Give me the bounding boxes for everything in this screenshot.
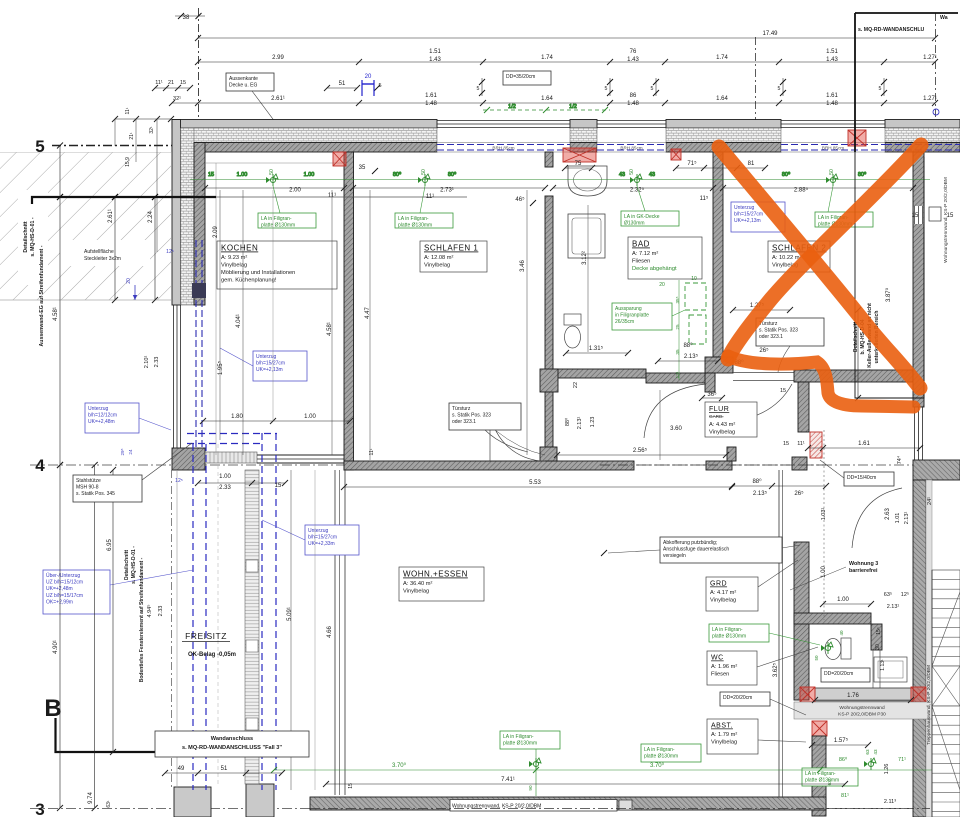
svg-text:2.63: 2.63 <box>885 508 891 520</box>
svg-text:b/h=12/12cm: b/h=12/12cm <box>88 413 117 419</box>
room label FLUR <box>705 402 757 437</box>
svg-text:43: 43 <box>619 172 625 178</box>
svg-text:Anschlussfuge dauerelastisch: Anschlussfuge dauerelastisch <box>663 547 729 553</box>
svg-text:BAD: BAD <box>632 240 650 249</box>
svg-text:63¹: 63¹ <box>106 800 112 808</box>
orange marker X stroke A <box>719 145 921 407</box>
svg-text:86⁰: 86⁰ <box>839 756 848 763</box>
svg-text:2.00: 2.00 <box>289 188 301 194</box>
grid line 4 <box>30 456 958 475</box>
svg-text:A: 12.08 m²: A: 12.08 m² <box>424 255 454 261</box>
svg-text:32¹: 32¹ <box>149 126 155 134</box>
interior vertical dim lines <box>220 190 660 790</box>
svg-text:5: 5 <box>651 86 654 92</box>
svg-text:platte Ø130mm: platte Ø130mm <box>805 778 839 784</box>
svg-text:2.73¹: 2.73¹ <box>440 188 454 194</box>
svg-text:17.49: 17.49 <box>762 31 778 37</box>
svg-text:1.74: 1.74 <box>541 55 553 61</box>
svg-text:3: 3 <box>35 800 44 817</box>
svg-text:1.00: 1.00 <box>837 597 849 603</box>
svg-text:Türsturz: Türsturz <box>452 406 471 412</box>
svg-text:Vinylbelag: Vinylbelag <box>403 589 429 595</box>
room label WC <box>707 647 818 685</box>
dim KOCHEN window <box>200 414 353 424</box>
SCHLAFEN2 left wall <box>705 152 733 392</box>
svg-text:1.00: 1.00 <box>237 172 248 178</box>
svg-text:2.88⁵: 2.88⁵ <box>794 187 809 194</box>
room label SCHLAFEN 1 <box>420 241 487 272</box>
svg-text:2.09: 2.09 <box>213 226 219 238</box>
room label SCHLAFEN 2 <box>768 241 830 272</box>
window reveal 5 dims <box>477 78 887 96</box>
svg-text:LA in Filigran-: LA in Filigran- <box>644 747 675 753</box>
svg-text:2.13¹: 2.13¹ <box>887 604 900 610</box>
svg-text:Wohnung 3: Wohnung 3 <box>849 561 878 567</box>
svg-text:UZ b/h=15/12cm: UZ b/h=15/12cm <box>46 580 83 586</box>
black room dim lines <box>202 185 916 194</box>
wall WC right <box>871 624 882 688</box>
svg-text:Vinylbelag: Vinylbelag <box>711 740 737 746</box>
red DD box 15/40 <box>810 432 822 458</box>
rotated gray wall texts right <box>926 177 949 745</box>
svg-text:1/2: 1/2 <box>508 104 516 110</box>
green box LA KOCHEN <box>258 186 316 229</box>
rotated bold text detail right <box>853 303 880 371</box>
stair side wall lines <box>931 570 933 817</box>
svg-text:LA in Filigran-: LA in Filigran- <box>398 216 429 222</box>
WOHN right edge double line <box>779 470 783 797</box>
svg-text:2.13¹: 2.13¹ <box>577 417 583 430</box>
WC fixtures <box>825 638 907 682</box>
green box LA SCHLAFEN1 <box>395 186 453 229</box>
svg-text:Steckleiter 3x2m: Steckleiter 3x2m <box>84 256 121 262</box>
dim 5.53 <box>341 480 735 490</box>
svg-text:20: 20 <box>365 74 372 80</box>
svg-text:1.64: 1.64 <box>716 96 728 102</box>
svg-text:20: 20 <box>126 278 132 284</box>
dims right FLUR top <box>783 441 923 451</box>
green ceiling line KOCHEN <box>190 171 930 186</box>
staircase lower flight <box>932 706 960 817</box>
svg-text:Fliesen: Fliesen <box>632 259 650 265</box>
wall right of FLUR <box>792 382 809 470</box>
svg-text:Decke u. EG: Decke u. EG <box>229 83 257 89</box>
dimension chain row 2 <box>195 49 938 65</box>
svg-text:A: 1.79 m²: A: 1.79 m² <box>711 732 737 738</box>
dims SCHLAFEN2 <box>699 302 793 401</box>
svg-text:2.33: 2.33 <box>158 606 164 617</box>
label Wohnung 3 barrierefrei <box>790 561 878 590</box>
svg-text:UK=+2,33m: UK=+2,33m <box>308 541 335 547</box>
BAD washbasin <box>568 166 607 196</box>
svg-text:A: 4.43 m²: A: 4.43 m² <box>709 422 735 428</box>
label DD=20/20 b <box>720 692 806 715</box>
svg-text:81¹: 81¹ <box>841 793 849 799</box>
SCHLAFEN2 bottom wall <box>794 370 913 382</box>
wall x913 lower right <box>913 480 932 817</box>
svg-text:51: 51 <box>339 81 346 87</box>
svg-text:1.26: 1.26 <box>884 764 890 775</box>
svg-text:3.87⁰: 3.87⁰ <box>885 287 892 302</box>
svg-text:Aussparung: Aussparung <box>615 306 642 312</box>
svg-text:76: 76 <box>630 49 637 55</box>
svg-text:50: 50 <box>829 169 835 175</box>
svg-text:b/h=15/27cm: b/h=15/27cm <box>308 535 337 541</box>
svg-text:s. MQ-RD-WANDANSCHLUSS "Fall 3: s. MQ-RD-WANDANSCHLUSS "Fall 3" <box>182 745 282 751</box>
red small marker top wall 2 <box>563 148 681 162</box>
green boxes bottom row <box>500 731 560 796</box>
svg-text:Unterzug: Unterzug <box>308 528 329 534</box>
svg-text:oder 323.1: oder 323.1 <box>759 334 783 340</box>
SCHLAFEN2 door threshold <box>733 373 794 381</box>
svg-text:26⁵: 26⁵ <box>794 490 804 497</box>
grid axis right x935 <box>933 13 939 119</box>
svg-text:5: 5 <box>879 86 882 92</box>
svg-text:5: 5 <box>477 86 480 92</box>
svg-text:1.31⁵: 1.31⁵ <box>589 345 604 352</box>
red crossed box top wall 1 <box>333 152 346 166</box>
svg-text:15: 15 <box>780 388 786 394</box>
label DD=15/40 <box>820 460 894 486</box>
svg-text:GRD: GRD <box>710 581 727 588</box>
svg-text:15: 15 <box>912 213 919 219</box>
svg-text:OK-Belag -0,05m: OK-Belag -0,05m <box>188 652 236 658</box>
blue dim 20 <box>362 74 374 96</box>
orange marker snake path <box>728 356 914 407</box>
svg-text:gem. Küchenplanung!: gem. Küchenplanung! <box>221 278 277 284</box>
svg-text:UZ b/h=15/17cm: UZ b/h=15/17cm <box>46 593 83 599</box>
green box Aussparung <box>612 276 706 380</box>
room label FREISITZ <box>182 631 236 658</box>
svg-text:1.80: 1.80 <box>231 414 243 420</box>
svg-text:2.99: 2.99 <box>272 55 284 61</box>
svg-text:SCHLAFEN 1: SCHLAFEN 1 <box>424 244 478 253</box>
svg-text:20: 20 <box>659 282 665 288</box>
blue small texts <box>120 249 183 484</box>
blue parapet dashes over right pier <box>885 145 960 151</box>
dims bottom left 49 51 <box>162 766 354 789</box>
FREISITZ dashed beams <box>172 433 278 790</box>
room label WOHN.+ESSEN <box>399 567 484 601</box>
svg-text:BRH 85cm: BRH 85cm <box>620 145 642 150</box>
svg-text:2.61¹: 2.61¹ <box>271 96 285 102</box>
svg-text:UK=+2,13m: UK=+2,13m <box>734 218 761 224</box>
room label ABST <box>707 719 806 754</box>
label Abkofferung <box>601 537 800 563</box>
staircase landing cross <box>932 666 960 706</box>
svg-text:1.61: 1.61 <box>425 93 437 99</box>
detail cut line left <box>32 194 467 204</box>
svg-text:UK=+2,13m: UK=+2,13m <box>256 367 283 373</box>
svg-text:1.48: 1.48 <box>627 101 639 107</box>
green box LA SCHLAFEN2 <box>815 186 873 228</box>
svg-text:1.76: 1.76 <box>847 693 859 699</box>
svg-text:WC: WC <box>711 655 724 662</box>
svg-text:71¹: 71¹ <box>898 757 906 763</box>
WOHN west window lines <box>335 470 345 795</box>
label Stahlstuetze <box>73 443 192 502</box>
svg-text:15: 15 <box>275 483 282 489</box>
room label KOCHEN <box>217 241 337 289</box>
svg-text:1.13¹: 1.13¹ <box>880 659 886 671</box>
dimension chain 17.49 <box>195 31 938 41</box>
band with red DD corners above WC bottom <box>800 687 926 702</box>
grid line 3 <box>30 800 958 817</box>
svg-text:5: 5 <box>35 137 44 156</box>
BAD toilet <box>564 314 581 348</box>
label Wandanschluss Fall3 <box>155 731 309 757</box>
svg-text:35: 35 <box>359 165 366 171</box>
svg-text:barrierefrei: barrierefrei <box>849 568 878 574</box>
Wohnungstrennwand light band <box>794 702 935 719</box>
label DD=20/20 a <box>821 668 870 682</box>
svg-text:43: 43 <box>649 172 655 178</box>
grid axis vertical at left wall <box>175 8 205 152</box>
svg-text:s. Statik Pos. 345: s. Statik Pos. 345 <box>76 491 115 497</box>
grid line 3 overlay <box>310 808 930 810</box>
bottom-left piers <box>174 784 274 817</box>
blue box Unterzug 15/27 b <box>262 520 359 555</box>
svg-text:12⁵: 12⁵ <box>175 478 183 484</box>
svg-text:s. MQ-HS-D-01 -: s. MQ-HS-D-01 - <box>131 546 137 584</box>
svg-text:Aussenwand-EG auf Streifenfund: Aussenwand-EG auf Streifenfundament - <box>39 245 45 346</box>
svg-text:26⁵: 26⁵ <box>759 347 769 354</box>
svg-text:1/2: 1/2 <box>569 104 577 110</box>
dims right side mid <box>809 213 954 805</box>
svg-text:12⁵: 12⁵ <box>901 591 909 598</box>
svg-text:2.33: 2.33 <box>219 485 231 491</box>
svg-text:A: 7.12 m²: A: 7.12 m² <box>632 251 658 257</box>
svg-text:40: 40 <box>839 630 844 636</box>
svg-text:26/35cm: 26/35cm <box>615 319 634 325</box>
svg-text:MSH 90-8: MSH 90-8 <box>76 485 99 491</box>
orange marker X stroke B <box>728 145 921 359</box>
blue box Unterzug 15/27 a <box>220 348 307 381</box>
svg-text:1.64: 1.64 <box>541 96 553 102</box>
svg-text:Stahlstütze: Stahlstütze <box>76 478 101 484</box>
svg-text:50: 50 <box>814 655 819 661</box>
svg-text:Wohnungstrennwand, KS-P 20/2,0: Wohnungstrennwand, KS-P 20/2,0/DBM <box>943 177 949 263</box>
svg-text:Aufstellfläche: Aufstellfläche <box>84 249 114 255</box>
svg-text:86: 86 <box>630 93 637 99</box>
svg-text:6.95: 6.95 <box>107 539 113 551</box>
staircase upper flight <box>932 570 960 666</box>
svg-text:Wa: Wa <box>940 15 948 21</box>
exterior wall top: windows with parapet <box>437 121 885 153</box>
svg-text:5.53: 5.53 <box>529 480 541 486</box>
blue box Ueber-/Unterzug <box>43 570 193 614</box>
svg-text:88⁰: 88⁰ <box>564 417 571 426</box>
wall band right y469 <box>913 460 960 480</box>
svg-text:LA in Filigran-: LA in Filigran- <box>712 627 743 633</box>
svg-text:WOHN.+ESSEN: WOHN.+ESSEN <box>403 570 468 579</box>
svg-text:1.27¹: 1.27¹ <box>923 55 937 61</box>
svg-text:s. Statik Pos. 323: s. Statik Pos. 323 <box>759 328 798 334</box>
svg-text:s. MQ-HS-D-01 -: s. MQ-HS-D-01 - <box>30 217 36 256</box>
green bottom dim line <box>271 762 958 773</box>
svg-text:88⁰: 88⁰ <box>752 478 762 485</box>
room label BAD <box>628 237 702 279</box>
svg-text:oder 323.1: oder 323.1 <box>452 419 476 425</box>
dimension chain row 3 small <box>152 80 382 91</box>
svg-text:46⁵: 46⁵ <box>515 196 525 203</box>
svg-text:2.13⁵: 2.13⁵ <box>684 353 699 360</box>
svg-text:A: 9.23 m²: A: 9.23 m² <box>221 255 247 261</box>
wall GRD left x794 <box>794 542 809 700</box>
svg-text:2.13⁵: 2.13⁵ <box>753 490 768 497</box>
svg-text:Unterzug: Unterzug <box>88 406 109 412</box>
blue 20 arrow marker <box>126 278 137 300</box>
svg-text:BRH 85cm: BRH 85cm <box>822 145 844 150</box>
ABST wall red box <box>812 721 827 736</box>
svg-text:ABST.: ABST. <box>711 723 733 730</box>
svg-text:1.43: 1.43 <box>627 57 639 63</box>
exterior wall left: window part <box>174 240 207 450</box>
svg-text:4: 4 <box>35 456 45 475</box>
svg-text:11¹: 11¹ <box>797 441 805 447</box>
door arc Wohnung3 <box>852 488 902 548</box>
svg-text:Vinylbelag: Vinylbelag <box>710 598 736 604</box>
svg-text:7.41¹: 7.41¹ <box>501 777 515 783</box>
svg-text:11⁵: 11⁵ <box>700 195 709 202</box>
dims FLUR <box>554 342 829 497</box>
svg-text:B: B <box>44 695 61 722</box>
svg-text:15⁵: 15⁵ <box>876 627 882 635</box>
svg-text:1.43: 1.43 <box>826 57 838 63</box>
svg-text:1.61: 1.61 <box>826 93 838 99</box>
dim 7.41 <box>323 777 848 787</box>
svg-text:Über-/Unterzug: Über-/Unterzug <box>46 572 80 579</box>
svg-text:Vinylbelag: Vinylbelag <box>424 263 450 269</box>
svg-text:22: 22 <box>573 382 579 388</box>
door arc SCHLAFEN2-FLUR <box>735 384 792 421</box>
exterior wall right <box>913 152 924 460</box>
svg-text:1.51: 1.51 <box>429 49 441 55</box>
svg-text:15: 15 <box>208 172 214 178</box>
svg-text:DD=20/20cm: DD=20/20cm <box>824 671 853 677</box>
svg-text:Detailschnitt: Detailschnitt <box>124 550 130 580</box>
svg-text:63⁵: 63⁵ <box>884 591 892 598</box>
grid label B and callout line <box>44 695 155 752</box>
svg-text:50: 50 <box>269 169 275 175</box>
door arc SCHLAFEN1 <box>490 406 545 461</box>
svg-text:b/h=15/27cm: b/h=15/27cm <box>256 361 285 367</box>
svg-text:versiegeln: versiegeln <box>663 553 686 559</box>
svg-text:10: 10 <box>691 276 697 282</box>
wall WOHN top (south of SCHLAFEN1/FLUR) <box>344 447 736 470</box>
svg-text:11¹: 11¹ <box>125 107 131 114</box>
green small dims bottom right <box>827 749 906 799</box>
svg-text:5.09¹: 5.09¹ <box>287 607 293 621</box>
svg-text:s. MQ-RD-WANDANSCHLU: s. MQ-RD-WANDANSCHLU <box>858 27 925 33</box>
svg-text:80⁰: 80⁰ <box>448 171 457 178</box>
svg-text:4.58¹: 4.58¹ <box>53 307 59 321</box>
svg-text:Decke abgehängt: Decke abgehängt <box>632 266 677 272</box>
svg-text:63: 63 <box>865 749 870 755</box>
svg-text:Unterzug: Unterzug <box>734 205 755 211</box>
BAD bottom wall <box>540 369 646 392</box>
green box LA BAD <box>621 186 679 227</box>
svg-text:32¹: 32¹ <box>173 96 181 102</box>
svg-text:Wohnungstrennwand: Wohnungstrennwand <box>839 705 885 711</box>
svg-text:1.03¹: 1.03¹ <box>821 508 827 521</box>
svg-text:2.10¹: 2.10¹ <box>144 356 150 369</box>
svg-text:1.95⁵: 1.95⁵ <box>217 360 224 375</box>
svg-text:Unterzug: Unterzug <box>256 354 277 360</box>
svg-text:1.00: 1.00 <box>219 474 231 480</box>
svg-text:74⁴: 74⁴ <box>896 455 903 464</box>
svg-text:3.60: 3.60 <box>670 426 682 432</box>
dim BAD door 75 <box>562 161 595 171</box>
svg-text:1.51: 1.51 <box>826 49 838 55</box>
door arc FLUR-WOHN 3.60 <box>644 384 706 438</box>
svg-text:15: 15 <box>180 80 186 86</box>
svg-text:2.11³: 2.11³ <box>884 799 896 805</box>
dotted axis x824 <box>823 430 825 620</box>
svg-text:81: 81 <box>748 161 755 167</box>
svg-text:1.00: 1.00 <box>304 172 315 178</box>
interior wall KOCHEN|SCHLAFEN1 <box>344 152 354 470</box>
svg-text:LA in GK-Decke: LA in GK-Decke <box>624 214 660 220</box>
svg-text:1.43: 1.43 <box>429 57 441 63</box>
svg-text:1.48: 1.48 <box>826 101 838 107</box>
ground hatch area outside building top-left <box>0 152 171 300</box>
exterior wall left: solid part <box>172 120 205 306</box>
label DD=35/20cm <box>503 71 551 85</box>
svg-text:2.33: 2.33 <box>154 357 160 368</box>
svg-text:Detailschnitt: Detailschnitt <box>23 221 29 252</box>
svg-text:5: 5 <box>605 86 608 92</box>
svg-text:LA in Filigran-: LA in Filigran- <box>805 771 836 777</box>
svg-text:30: 30 <box>875 644 881 650</box>
svg-text:1.00: 1.00 <box>304 414 316 420</box>
svg-text:LA in Filigran-: LA in Filigran- <box>261 216 292 222</box>
svg-text:3.70⁰: 3.70⁰ <box>392 762 407 769</box>
right wall window break <box>914 206 941 224</box>
svg-text:A: 36.40 m²: A: 36.40 m² <box>403 581 433 587</box>
svg-text:75: 75 <box>575 161 582 167</box>
svg-text:FLUR: FLUR <box>709 406 729 413</box>
BAD shower <box>568 214 605 258</box>
svg-text:36⁵: 36⁵ <box>707 391 717 398</box>
label Aussenkante Decke u. EG <box>226 73 296 150</box>
svg-text:Vinylbelag: Vinylbelag <box>709 430 735 436</box>
svg-text:2.13¹: 2.13¹ <box>904 512 910 525</box>
svg-text:OK=+2,99m: OK=+2,99m <box>46 599 73 605</box>
room label GRD <box>706 560 798 611</box>
svg-text:24: 24 <box>128 449 133 455</box>
svg-text:b/h=15/27cm: b/h=15/27cm <box>734 212 763 218</box>
svg-text:Ø130mm: Ø130mm <box>624 221 645 227</box>
svg-text:15: 15 <box>348 783 354 789</box>
svg-text:platte Ø130mm: platte Ø130mm <box>503 741 537 747</box>
grid line 5 <box>35 137 206 156</box>
svg-text:9.74: 9.74 <box>88 792 94 804</box>
svg-text:90: 90 <box>528 785 533 791</box>
svg-text:3.46: 3.46 <box>520 260 526 272</box>
svg-text:80⁰: 80⁰ <box>782 171 791 178</box>
svg-text:platte Ø130mm: platte Ø130mm <box>644 754 678 760</box>
svg-text:4.90¹: 4.90¹ <box>53 640 59 654</box>
svg-text:1.48: 1.48 <box>425 101 437 107</box>
svg-text:1.74: 1.74 <box>716 55 728 61</box>
dimension chain row 4 <box>169 93 938 107</box>
svg-text:1.23: 1.23 <box>590 417 596 428</box>
rotated bold text detail left top <box>23 217 45 346</box>
svg-text:3.12²: 3.12² <box>582 251 588 265</box>
svg-text:12⁵: 12⁵ <box>166 249 174 255</box>
svg-text:DD=15/40cm: DD=15/40cm <box>847 475 876 481</box>
